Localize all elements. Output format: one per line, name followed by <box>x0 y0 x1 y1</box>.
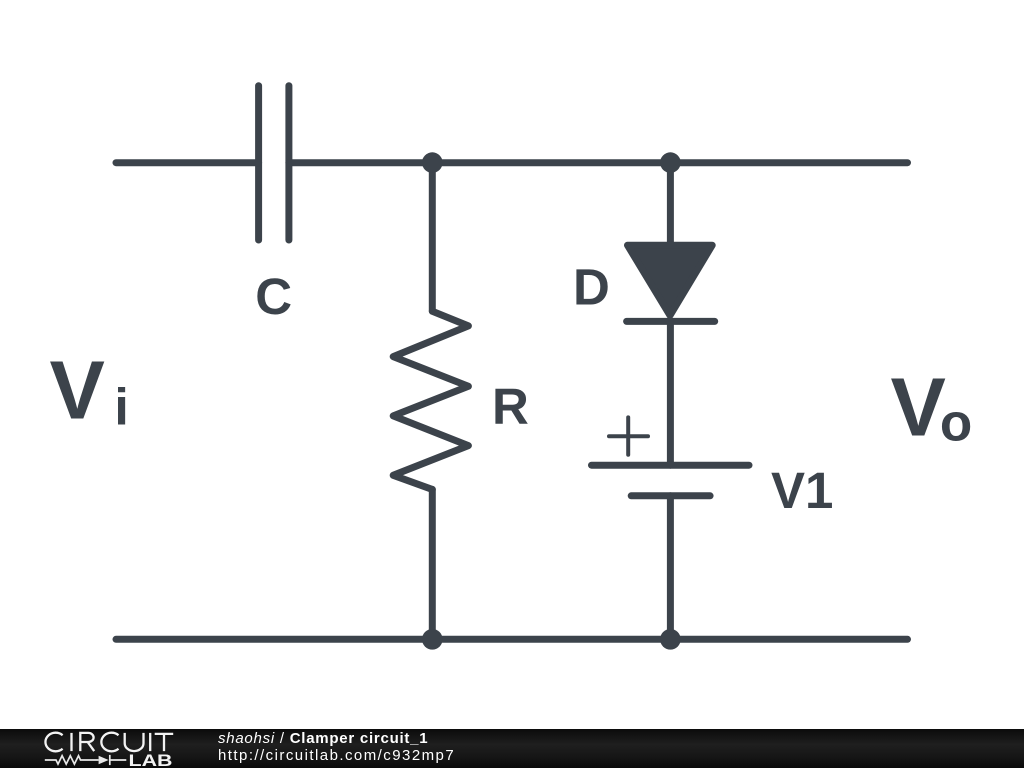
diode D triangle <box>628 245 713 315</box>
battery V1 plus sign <box>609 417 648 454</box>
capacitor C plates <box>259 86 289 240</box>
svg-text:LAB: LAB <box>129 751 173 768</box>
svg-text:Vi: Vi <box>50 344 129 437</box>
svg-text:V1: V1 <box>771 462 833 519</box>
svg-text:D: D <box>573 259 610 316</box>
node top-right junction <box>660 152 681 173</box>
svg-text:Vo: Vo <box>891 361 973 454</box>
wire diode anode lead <box>667 163 674 242</box>
wire top-left (input to capacitor) <box>116 159 259 166</box>
node bottom-right junction <box>660 629 681 650</box>
CircuitLab logo <box>0 728 200 768</box>
node bottom-left junction <box>422 629 443 650</box>
wire resistor top lead <box>429 163 436 311</box>
wire battery to bottom rail <box>667 496 674 639</box>
resistor R zigzag <box>393 311 468 489</box>
battery V1 negative plate <box>631 492 710 499</box>
wire diode to battery <box>667 321 674 465</box>
logo wordmark CIRCUIT <box>45 733 173 752</box>
battery V1 positive plate <box>592 462 750 469</box>
footer bar <box>0 729 1024 768</box>
svg-text:R: R <box>492 378 529 435</box>
svg-text:C: C <box>255 268 292 325</box>
wire resistor bottom lead <box>429 489 436 639</box>
wire bottom rail <box>116 636 908 643</box>
node top-left junction <box>422 152 443 173</box>
logo resistor-diode symbol <box>45 755 127 765</box>
wire capacitor to output (top) <box>289 159 908 166</box>
diode D cathode bar <box>627 318 715 325</box>
